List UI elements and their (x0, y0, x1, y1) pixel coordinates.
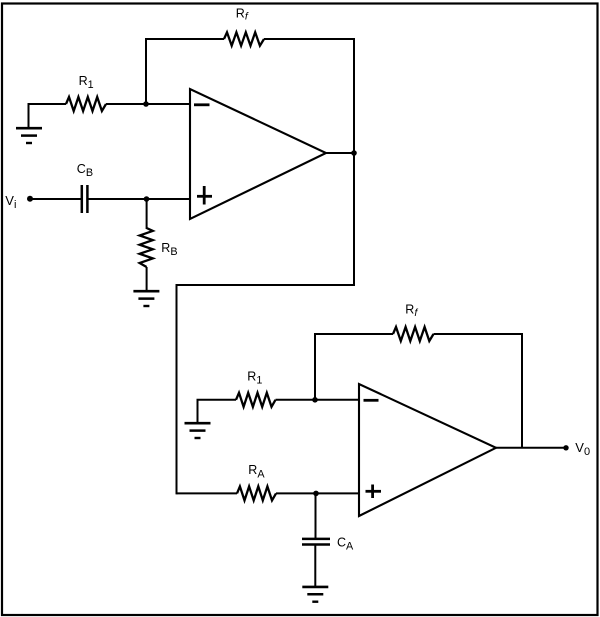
capacitor CA (302, 539, 330, 545)
node B (U1 non-inverting input) (144, 196, 150, 202)
node E (U2 non-inverting input) (313, 491, 319, 497)
wire (521, 333, 523, 449)
ground GND3 (185, 423, 211, 438)
op-amp U2 (359, 384, 496, 516)
wire (197, 399, 237, 401)
ground GND2 (133, 291, 159, 306)
resistor RB (140, 228, 153, 267)
wire (145, 38, 224, 40)
node D (U2 inverting input) (312, 397, 318, 403)
wire (87, 198, 191, 200)
wire (315, 493, 317, 539)
wire (314, 545, 316, 588)
capacitor CB (82, 185, 88, 213)
node C (stage 1 output) (351, 150, 357, 156)
node A (U1 inverting input) (143, 101, 149, 107)
wire (145, 38, 147, 105)
wire (314, 333, 393, 335)
resistor RA (237, 486, 276, 500)
wire (28, 103, 30, 128)
resistor R1 (66, 97, 106, 111)
resistor Rf (stage 2) (393, 327, 434, 341)
ground GND4 (302, 587, 328, 602)
wire (146, 199, 148, 229)
wire (314, 333, 316, 401)
op-amp U1 (190, 89, 326, 219)
ground GND1 (16, 128, 42, 143)
wire (146, 267, 148, 291)
wire (434, 333, 524, 335)
wire (496, 447, 566, 449)
resistor Rf (224, 32, 264, 45)
wire (30, 198, 82, 200)
wire (264, 38, 355, 40)
wire (353, 38, 355, 153)
wire (326, 152, 355, 154)
resistor R1 (stage 2) (236, 393, 276, 407)
wire (177, 492, 238, 494)
wire (276, 399, 361, 401)
wire (176, 284, 178, 494)
node V0 terminal (563, 445, 568, 450)
wire (177, 284, 356, 286)
wire (353, 153, 355, 286)
wire (106, 103, 191, 105)
node Vi terminal (27, 196, 33, 202)
wire (28, 103, 67, 105)
wire (197, 399, 199, 423)
wire (276, 492, 360, 494)
